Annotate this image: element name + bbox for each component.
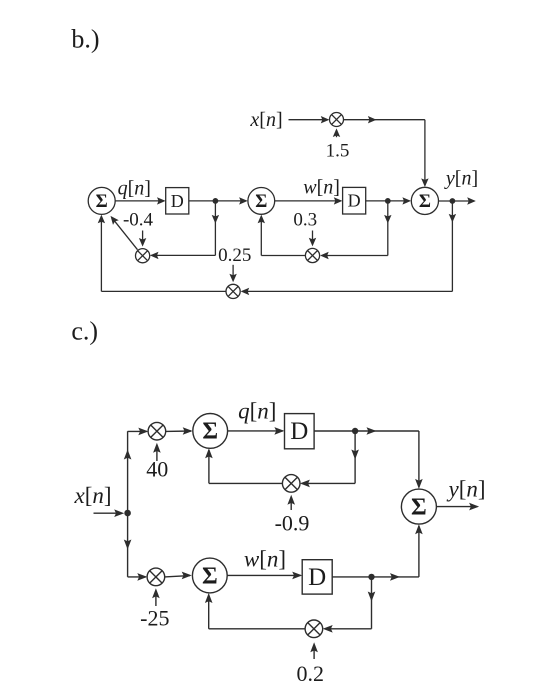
svg-text:Σ: Σ [411,494,427,520]
svg-text:-0.4: -0.4 [123,209,154,230]
svg-text:x[n]: x[n] [73,483,111,508]
svg-text:Σ: Σ [202,419,218,445]
svg-text:b.): b.) [71,25,99,54]
svg-text:D: D [290,418,308,445]
svg-text:w[n]: w[n] [303,177,340,199]
svg-text:1.5: 1.5 [326,141,350,162]
svg-text:40: 40 [146,457,168,482]
svg-text:D: D [171,191,184,211]
svg-text:x[n]: x[n] [249,109,282,131]
svg-text:0.2: 0.2 [296,661,324,686]
svg-text:y[n]: y[n] [446,477,485,502]
svg-text:-0.9: -0.9 [275,511,310,536]
svg-text:Σ: Σ [202,563,218,589]
svg-text:w[n]: w[n] [244,547,286,572]
svg-text:0.3: 0.3 [293,210,317,231]
svg-text:D: D [308,564,326,591]
svg-text:Σ: Σ [255,192,267,212]
svg-text:q[n]: q[n] [118,177,151,199]
svg-text:y[n]: y[n] [444,168,478,190]
svg-text:q[n]: q[n] [238,399,276,424]
svg-text:D: D [348,191,361,211]
svg-text:0.25: 0.25 [218,245,251,266]
svg-text:Σ: Σ [96,192,108,212]
svg-text:c.): c.) [71,317,98,346]
svg-text:-25: -25 [140,606,169,631]
svg-text:Σ: Σ [419,192,431,212]
